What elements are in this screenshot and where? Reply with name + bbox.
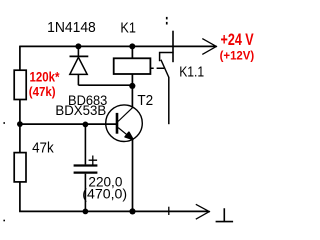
node dot base-divider junction — [17, 121, 23, 127]
node dot relay top — [129, 43, 135, 49]
svg-text:T2: T2 — [137, 93, 153, 109]
node dot collector junction — [129, 83, 135, 89]
node dot capacitor at bottom rail — [83, 209, 89, 215]
svg-text:K1: K1 — [120, 20, 135, 36]
plus polarity mark — [89, 156, 98, 165]
contact K1.1 — [160, 31, 174, 78]
wire left branch upper — [19, 46, 21, 70]
wire contact output — [168, 77, 170, 124]
svg-text:120k*: 120k* — [30, 68, 60, 84]
node dot capacitor tap — [83, 122, 89, 128]
stray dot left bottom — [3, 220, 5, 222]
arrow to +24V — [202, 39, 217, 55]
wire top rail +V — [20, 45, 216, 47]
wire between resistors — [19, 100, 21, 153]
resistor R2 47k — [14, 153, 26, 182]
wire base — [20, 123, 116, 125]
tick contact wire at bottom rail — [168, 207, 170, 215]
svg-text:(+12V): (+12V) — [220, 48, 255, 62]
svg-text:(470,0): (470,0) — [82, 186, 127, 201]
stray dot left middle — [3, 122, 5, 124]
arrow to ground — [196, 204, 210, 219]
svg-text:BDX53B: BDX53B — [55, 103, 106, 119]
capacitor C1 electrolytic — [74, 124, 98, 211]
node dot emitter at bottom rail — [129, 208, 135, 214]
transistor T2 — [106, 86, 143, 211]
wire bottom rail — [19, 210, 208, 212]
ground symbol — [216, 208, 234, 221]
linkage colon marks — [166, 17, 168, 20]
node dot diode cathode — [75, 43, 81, 49]
svg-text:1N4148: 1N4148 — [47, 20, 96, 36]
wire diode anode to collector — [78, 84, 132, 86]
relay coil K1 — [114, 46, 151, 86]
svg-text:+24 V: +24 V — [221, 30, 255, 49]
svg-text:(47k): (47k) — [29, 84, 56, 99]
wire left branch lower — [19, 182, 21, 212]
diode D1 1N4148 — [70, 46, 89, 85]
linkage dashes — [151, 67, 165, 69]
svg-text:K1.1: K1.1 — [179, 65, 204, 81]
resistor R1 120k — [14, 70, 26, 99]
svg-text:47k: 47k — [32, 140, 54, 156]
